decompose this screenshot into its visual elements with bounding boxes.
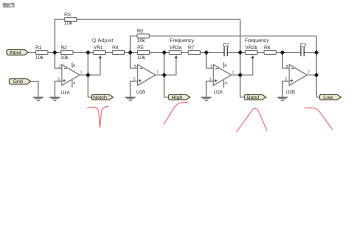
svg-text:R5: R5 <box>137 45 144 51</box>
svg-text:U1A: U1A <box>61 90 71 95</box>
svg-text:R2: R2 <box>61 45 68 51</box>
svg-text:VR1: VR1 <box>94 45 104 51</box>
svg-text:Low: Low <box>323 95 333 101</box>
svg-text:Notch: Notch <box>93 95 107 101</box>
svg-text:U1B: U1B <box>136 90 145 95</box>
svg-text:R7: R7 <box>188 45 195 51</box>
svg-text:10k: 10k <box>61 55 69 61</box>
svg-text:High: High <box>172 95 183 101</box>
svg-text:VR2b: VR2b <box>245 45 258 51</box>
svg-text:U2A: U2A <box>214 90 224 95</box>
svg-text:VR2a: VR2a <box>169 45 182 51</box>
svg-text:U2B: U2B <box>286 90 295 95</box>
svg-text:Frequency: Frequency <box>170 38 195 44</box>
svg-text:10k: 10k <box>35 55 43 61</box>
svg-text:C2: C2 <box>223 42 230 48</box>
svg-text:10k: 10k <box>64 21 72 27</box>
svg-text:Q Adjust: Q Adjust <box>92 38 114 44</box>
svg-text:10k: 10k <box>137 38 145 44</box>
svg-text:R4: R4 <box>112 45 119 51</box>
svg-text:R6: R6 <box>137 29 144 35</box>
svg-text:Gnd: Gnd <box>13 79 23 85</box>
svg-text:10k: 10k <box>137 55 145 61</box>
svg-text:R8: R8 <box>264 45 271 51</box>
svg-text:R1: R1 <box>35 45 42 51</box>
svg-text:Input: Input <box>9 50 21 56</box>
svg-text:Frequency: Frequency <box>245 38 270 44</box>
svg-text:Band: Band <box>247 95 259 101</box>
svg-text:R3: R3 <box>64 12 71 18</box>
svg-text:C3: C3 <box>300 42 307 48</box>
